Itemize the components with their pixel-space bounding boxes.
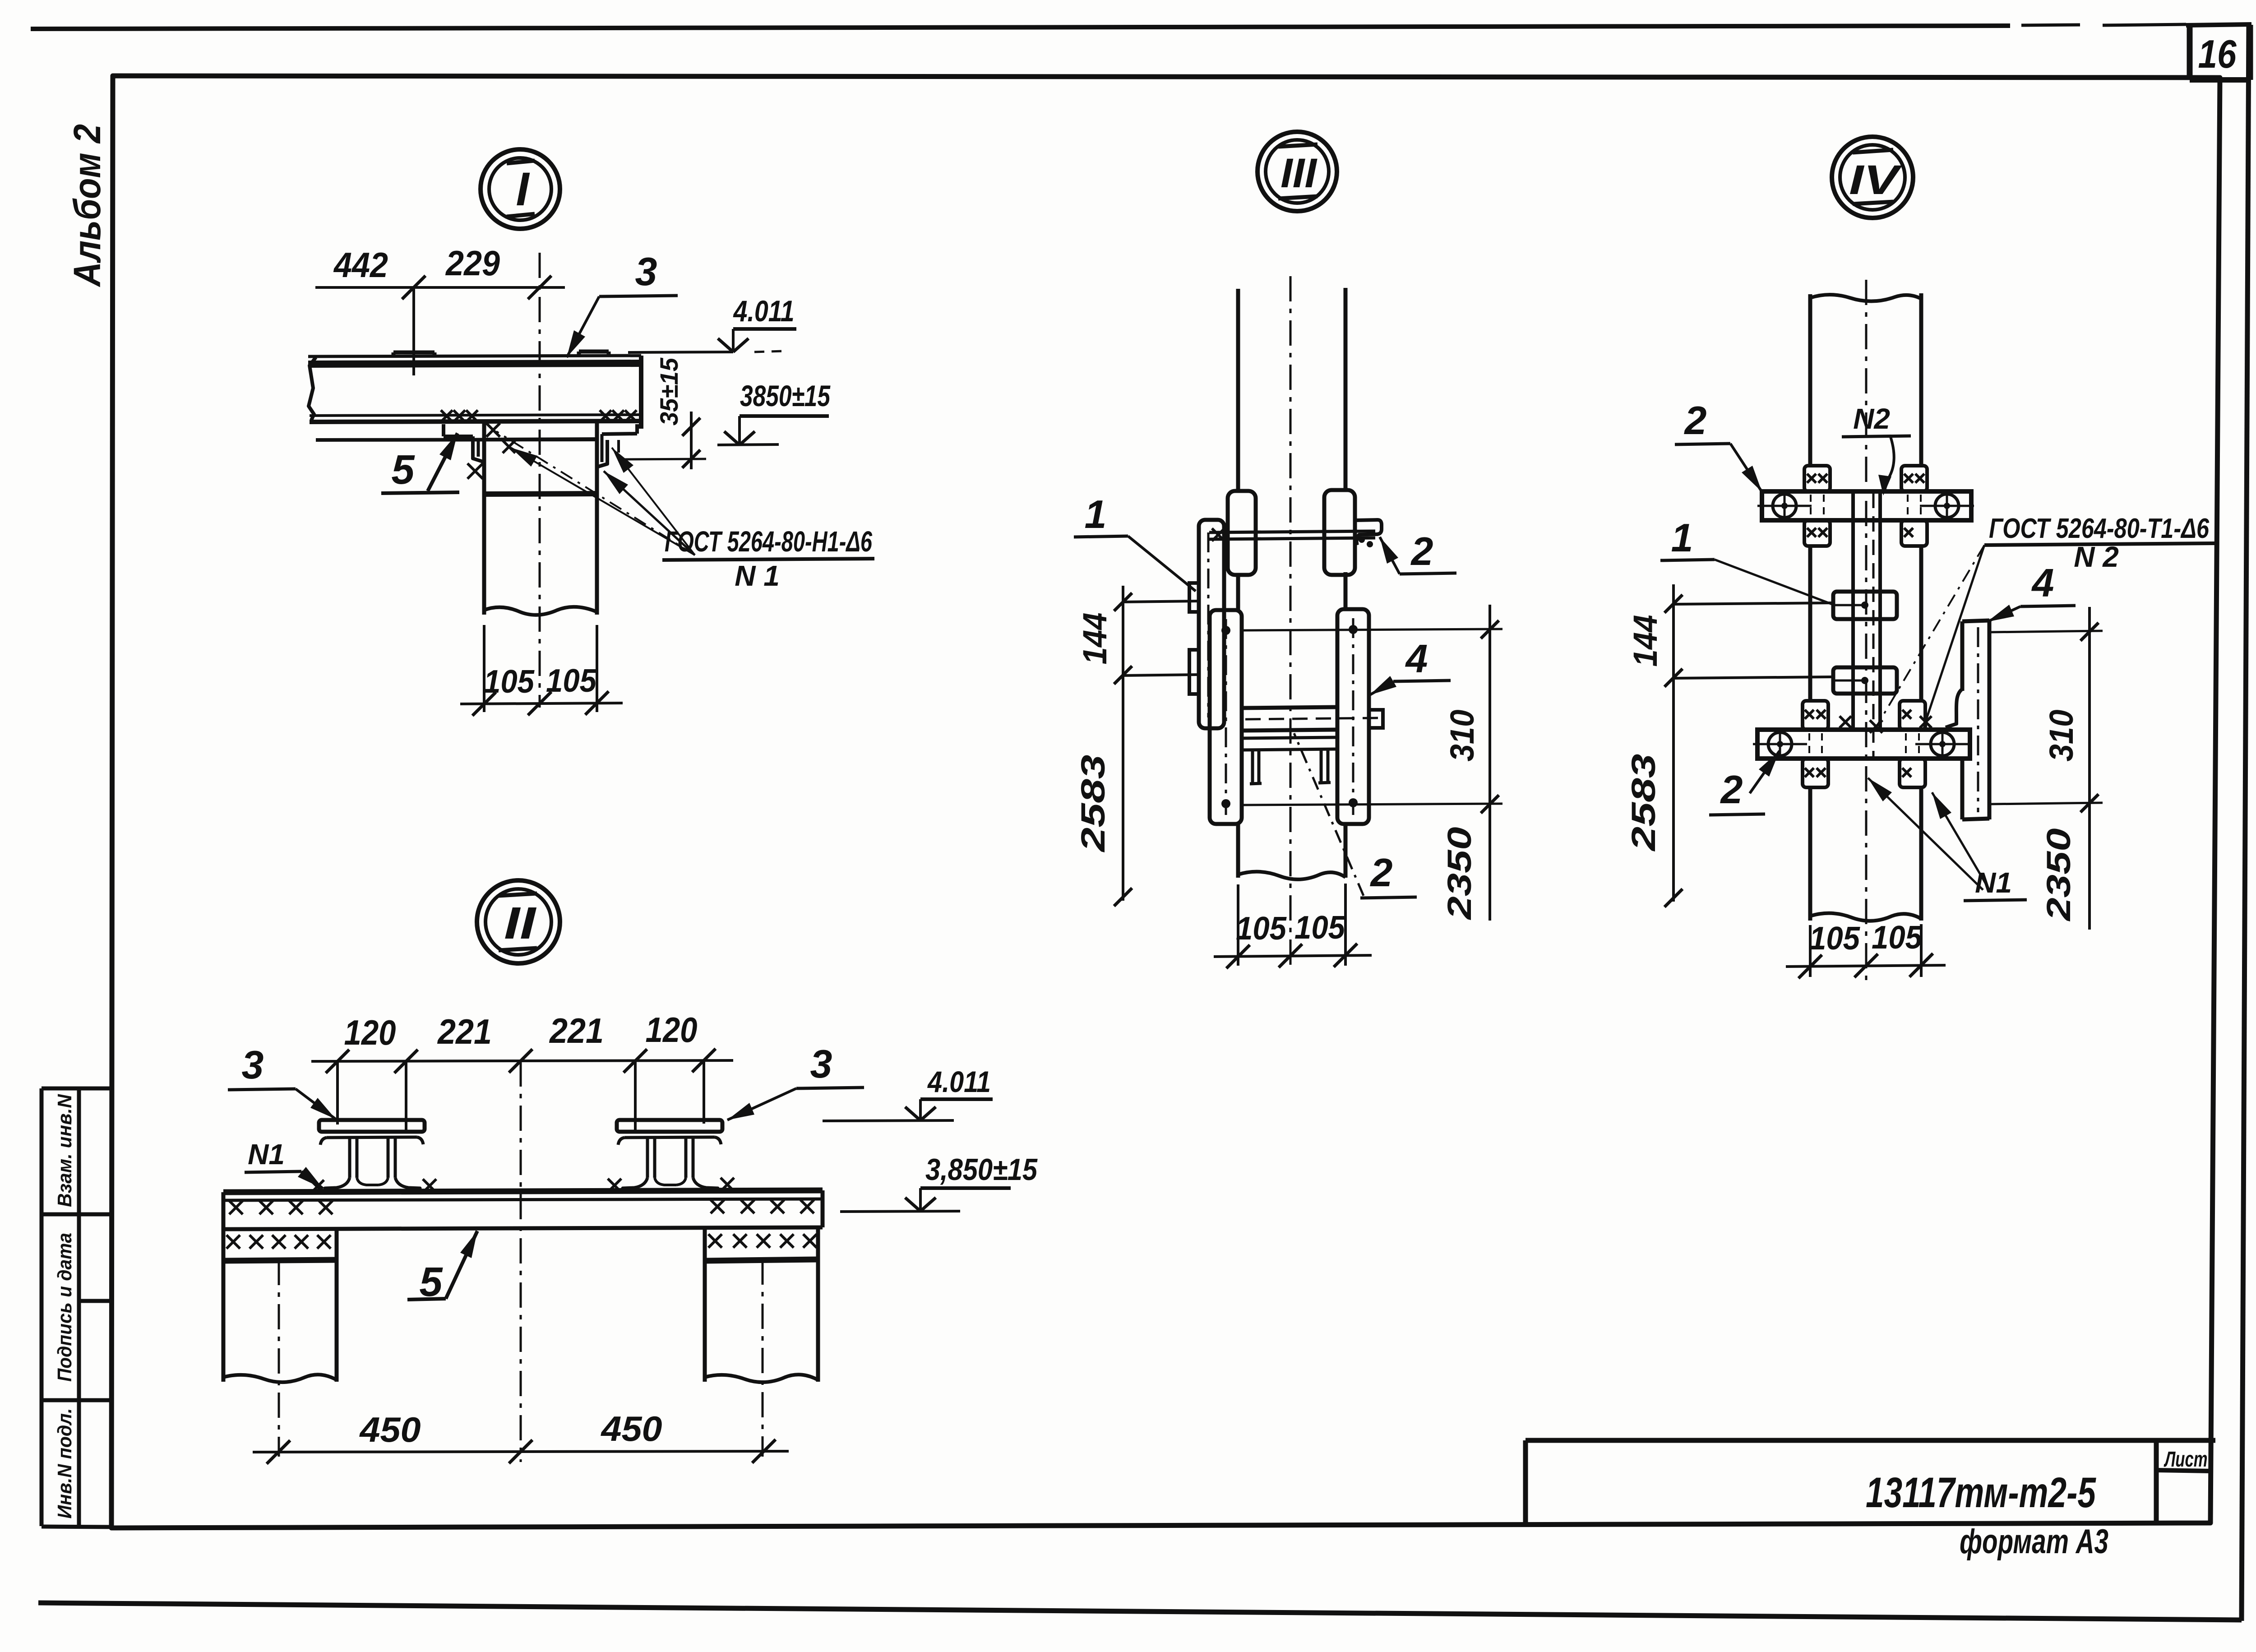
view I tab right top <box>579 350 609 354</box>
view IV bracket item4 <box>1962 620 1989 621</box>
svg-text:310: 310 <box>2043 710 2080 762</box>
view I beam right edge <box>639 356 643 429</box>
view III side plate tab lower <box>1189 650 1199 694</box>
view III upper pad right <box>1324 490 1355 575</box>
svg-text:120: 120 <box>344 1013 396 1052</box>
view III column below <box>1236 824 1240 878</box>
svg-text:229: 229 <box>445 243 500 283</box>
view II elevation 4.011 mark <box>920 1097 993 1101</box>
view IV label 2 top leader <box>1730 444 1762 492</box>
view I beam bottom <box>310 415 641 416</box>
view II right column <box>703 1228 707 1382</box>
view II label 5 leader <box>446 1231 477 1299</box>
svg-text:N 1: N 1 <box>735 560 780 592</box>
view III column edges lower <box>1236 573 1240 610</box>
view II elevation 3850 mark <box>920 1186 1011 1190</box>
view I column right edge <box>595 423 599 615</box>
side strip outer <box>40 1088 44 1526</box>
view III upper pad left <box>1228 491 1256 575</box>
view II left column <box>222 1261 226 1382</box>
svg-text:III: III <box>1281 150 1318 196</box>
view III column center line <box>1290 276 1292 970</box>
view II right hatch row2 <box>708 1234 722 1248</box>
view IV lower pads <box>1803 701 1828 730</box>
view IV column break bottom <box>1810 913 1921 921</box>
svg-text:2350: 2350 <box>2040 828 2077 922</box>
svg-text:ГОСТ 5264-80-Н1-Δ6: ГОСТ 5264-80-Н1-Δ6 <box>665 525 872 558</box>
view IV dim 105 extensions <box>1809 925 1812 977</box>
svg-text:2: 2 <box>1410 529 1433 574</box>
view I dim line 442/229 <box>315 286 565 289</box>
view IV upper pads <box>1804 466 1830 491</box>
view I column left edge <box>482 423 486 615</box>
view II left hatch row2 <box>227 1235 240 1249</box>
svg-text:II: II <box>504 898 537 949</box>
view IV ext lines right <box>1989 631 2103 632</box>
view I column joint bottom <box>484 494 597 494</box>
view III dim line 105/105 <box>1214 955 1372 957</box>
view IV upper pad welds <box>1807 474 1816 483</box>
svg-text:442: 442 <box>333 245 388 285</box>
svg-text:3850±15: 3850±15 <box>740 379 831 412</box>
svg-text:2350: 2350 <box>1441 827 1478 921</box>
view II label 3 left leader <box>296 1089 336 1119</box>
view I label 3 leader <box>567 296 599 357</box>
svg-text:ГОСТ 5264-80-Т1-Δ6: ГОСТ 5264-80-Т1-Δ6 <box>1989 513 2209 544</box>
svg-text:450: 450 <box>359 1410 421 1449</box>
svg-text:Взам. инв.N: Взам. инв.N <box>54 1094 76 1207</box>
svg-text:формат А3: формат А3 <box>1960 1522 2108 1561</box>
view II section mark circle <box>477 880 560 963</box>
view II rail stub right <box>617 1120 722 1132</box>
svg-text:144: 144 <box>1076 613 1114 665</box>
view II label 3 right leader <box>727 1088 796 1120</box>
svg-text:3,850±15: 3,850±15 <box>925 1152 1038 1187</box>
sheet number box <box>2187 26 2193 80</box>
title block frame <box>1526 1438 2215 1443</box>
view II slab bottom <box>223 1227 823 1229</box>
view III side plate <box>1199 520 1224 728</box>
view IV bracket dash <box>1977 627 1979 812</box>
view II right hatch row1 <box>711 1200 724 1213</box>
side strip dividers <box>42 1212 113 1217</box>
svg-text:N2: N2 <box>1853 403 1890 435</box>
svg-text:35±15: 35±15 <box>655 357 683 426</box>
view III channel right dash <box>1352 618 1355 815</box>
view IV dim line 105/105 <box>1786 965 1946 967</box>
view IV column mid <box>1808 546 1812 701</box>
svg-text:1: 1 <box>1085 492 1107 537</box>
view IV gost leaders <box>1877 545 1984 726</box>
svg-text:105: 105 <box>1236 911 1287 947</box>
view I elevation 4.011 mark <box>733 327 796 331</box>
view IV clamp plate 1 lower <box>1833 667 1897 694</box>
svg-text:144: 144 <box>1627 615 1664 667</box>
view II left column break <box>223 1374 337 1382</box>
svg-text:Инв.N подл.: Инв.N подл. <box>54 1408 76 1519</box>
svg-text:4.011: 4.011 <box>927 1065 991 1098</box>
page bottom edge <box>38 1603 2242 1620</box>
view IV lower hidden lines <box>1808 733 1810 756</box>
svg-text:4.011: 4.011 <box>733 294 795 328</box>
view II slab left end <box>222 1192 226 1261</box>
view I weld leaders <box>496 431 695 555</box>
svg-text:3: 3 <box>810 1041 832 1086</box>
view I column joint top <box>484 439 597 440</box>
view IV label 4 leader <box>1987 606 2020 622</box>
view II slab top <box>223 1190 823 1192</box>
svg-text:N1: N1 <box>248 1138 285 1171</box>
view I dim extension a <box>412 287 415 375</box>
view III ext lines right <box>1242 629 1502 630</box>
view I dim 105 extensions <box>483 625 485 712</box>
svg-text:5: 5 <box>391 447 415 493</box>
view III channel bolts <box>1221 626 1230 635</box>
view IV upper bar bolt left <box>1773 494 1796 518</box>
view III label 1 leader <box>1128 536 1196 591</box>
svg-text:105: 105 <box>1809 921 1860 957</box>
view IV upper bar <box>1762 491 1971 520</box>
view III cross beam tab <box>1369 710 1383 728</box>
view III label 2 bottom leader <box>1294 733 1364 896</box>
view I bearing plate <box>316 440 597 440</box>
view III channel right <box>1337 609 1369 824</box>
svg-text:16: 16 <box>2198 32 2237 76</box>
view IV ext lines left <box>1674 603 1833 604</box>
view II weld marks slab top <box>310 1180 324 1194</box>
page right edge <box>2242 25 2249 1621</box>
view III tie rod <box>1209 531 1375 532</box>
view IV strut plate <box>1851 491 1855 730</box>
view IV label N1 leaders <box>1868 778 1983 890</box>
svg-text:Альбом 2: Альбом 2 <box>66 124 108 287</box>
svg-text:2: 2 <box>1370 850 1393 895</box>
view IV lower pad welds <box>1805 710 1814 719</box>
view II label N1 leader <box>301 1171 323 1189</box>
svg-text:310: 310 <box>1443 710 1481 762</box>
title block list cell <box>2154 1440 2159 1524</box>
view II dim extensions top <box>336 1061 339 1124</box>
svg-text:2: 2 <box>1684 398 1707 443</box>
view III beam stubs <box>1251 750 1254 783</box>
view III label 4 leader <box>1370 681 1393 695</box>
svg-text:N1: N1 <box>1975 866 2012 899</box>
view III side plate dashes <box>1207 532 1210 717</box>
svg-text:221: 221 <box>437 1012 492 1051</box>
view III section mark circle <box>1257 132 1337 211</box>
view IV column edges <box>1808 294 1812 466</box>
svg-text:1: 1 <box>1671 515 1693 560</box>
view IV strut plate dash <box>1872 493 1875 758</box>
view IV lower bar bolt left <box>1768 732 1792 756</box>
view IV bracket hook <box>1946 689 1962 727</box>
view III dim line right <box>1489 605 1491 921</box>
view II right column break <box>705 1374 818 1382</box>
view III column edges <box>1236 289 1240 491</box>
view III dim line left <box>1122 586 1124 901</box>
view IV label N2 leader <box>1885 437 1894 490</box>
svg-text:3: 3 <box>635 249 657 294</box>
svg-text:4: 4 <box>2031 560 2054 605</box>
view II right column center <box>762 1259 764 1457</box>
view IV column center line <box>1865 280 1868 984</box>
view III lower strip <box>1242 737 1337 738</box>
view IV label 2 bottom leader <box>1750 751 1780 793</box>
svg-text:N 2: N 2 <box>2074 541 2119 573</box>
view II dim line top <box>311 1060 733 1061</box>
view III dim 105 extensions <box>1237 884 1239 966</box>
svg-text:13117тм-т2-5: 13117тм-т2-5 <box>1866 1469 2096 1517</box>
view I weld mark tab <box>467 463 483 479</box>
svg-text:450: 450 <box>600 1409 662 1448</box>
view III side plate tab upper <box>1189 583 1199 612</box>
view I beam left break <box>309 357 316 420</box>
view I column break <box>484 607 597 615</box>
view IV column below <box>1808 787 1812 921</box>
page top edge <box>31 26 2010 29</box>
svg-text:2583: 2583 <box>1074 755 1112 853</box>
svg-text:105: 105 <box>546 663 597 699</box>
view II left hatch row1 <box>229 1201 243 1214</box>
view IV upper bar bolt right <box>1935 494 1959 518</box>
view I tab left top <box>393 351 435 355</box>
view I elevation 3850 mark <box>740 414 829 418</box>
svg-text:105: 105 <box>1872 920 1923 956</box>
svg-text:4: 4 <box>1405 636 1428 681</box>
view IV lower bar <box>1757 730 1970 759</box>
view I dim line 105/105 <box>460 703 623 704</box>
view II dim line 450/450 <box>253 1451 789 1452</box>
view IV label 1 leader <box>1715 560 1833 605</box>
view III cross beam <box>1242 707 1337 708</box>
view I label 5 leader <box>428 433 458 491</box>
view I weld marks beam <box>441 410 453 422</box>
svg-text:120: 120 <box>646 1010 698 1050</box>
svg-text:Лист: Лист <box>2164 1448 2207 1472</box>
view III channel left dash <box>1225 619 1227 815</box>
view I column center line <box>539 253 541 708</box>
view I dim 35 lower extension <box>624 459 706 459</box>
view IV clamp plate 1 upper <box>1833 592 1897 619</box>
svg-text:2583: 2583 <box>1625 754 1662 852</box>
view III ext lines left <box>1123 601 1199 602</box>
view III hook item2 <box>1355 520 1382 545</box>
svg-text:Подпись и дата: Подпись и дата <box>54 1233 76 1382</box>
view II center line <box>520 1061 522 1462</box>
view I section mark circle <box>481 149 560 229</box>
svg-text:I: I <box>516 163 530 216</box>
svg-text:221: 221 <box>549 1011 604 1050</box>
view IV dim line left <box>1672 584 1675 902</box>
view II left column center <box>278 1260 280 1457</box>
svg-text:2: 2 <box>1720 767 1743 812</box>
view III label 2 top leader <box>1380 537 1400 574</box>
svg-text:IV: IV <box>1849 157 1902 203</box>
view IV upper hidden lines <box>1810 495 1812 518</box>
view III rod end mark <box>1212 528 1225 541</box>
view III channel left <box>1210 610 1242 824</box>
view I beam top plate <box>308 356 641 356</box>
view IV section mark circle <box>1832 137 1913 218</box>
view I right bent plate <box>602 434 637 434</box>
view I left bent plate <box>442 424 445 436</box>
view IV lower bar bolt right <box>1931 732 1954 756</box>
view III column break <box>1238 872 1345 879</box>
svg-text:105: 105 <box>1294 910 1345 946</box>
view II slab right end <box>821 1190 825 1227</box>
view IV dim line right <box>2088 607 2091 930</box>
view II rail stub left <box>319 1120 425 1132</box>
svg-text:105: 105 <box>484 664 535 700</box>
view IV column break top <box>1810 295 1921 301</box>
svg-text:3: 3 <box>242 1042 264 1087</box>
